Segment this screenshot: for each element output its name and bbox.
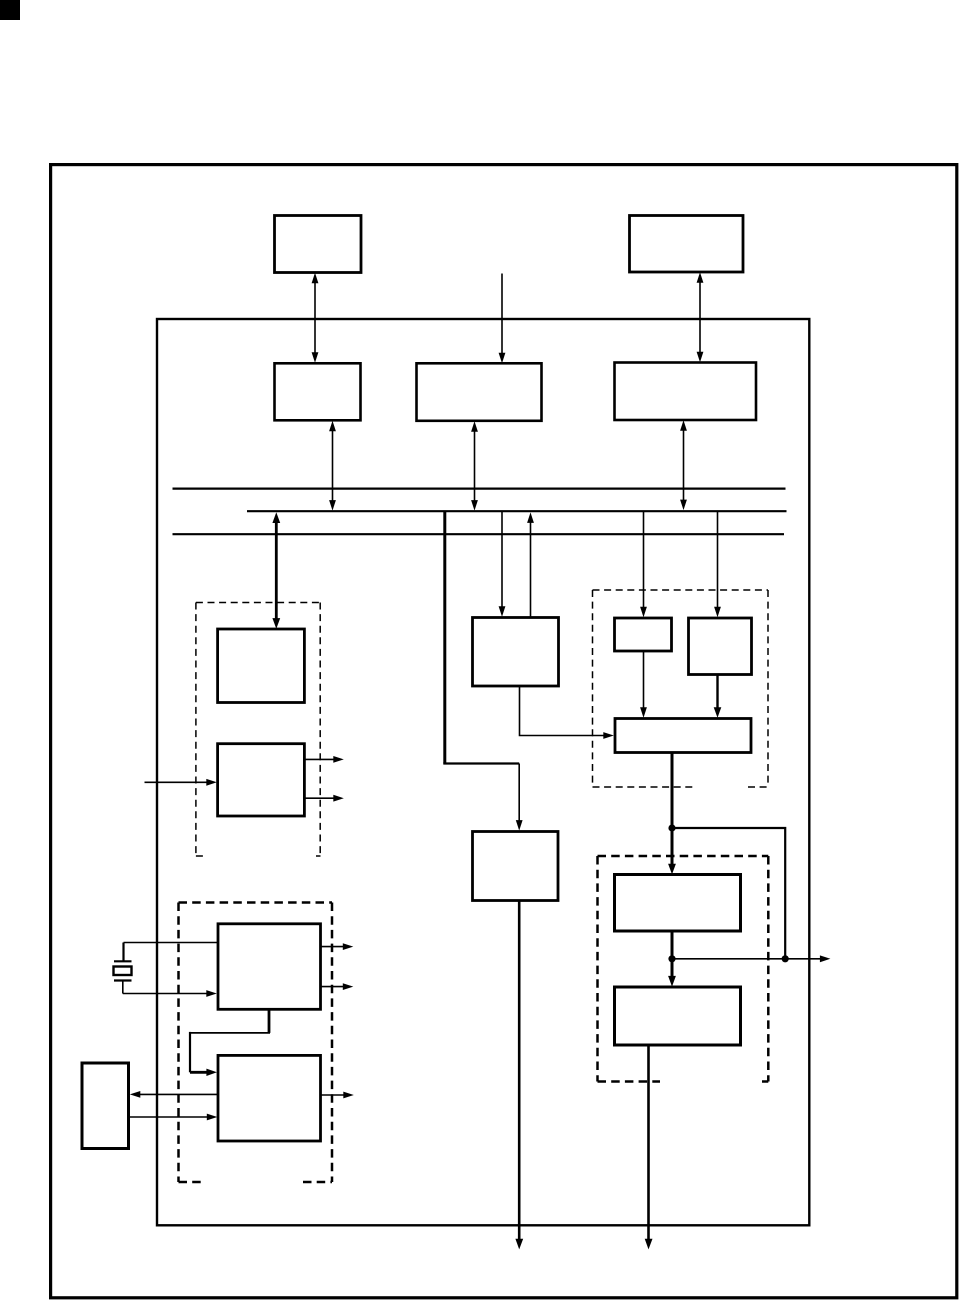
box R1 xyxy=(615,618,672,651)
top box T2 xyxy=(630,216,744,273)
box F xyxy=(218,629,305,703)
wire G output 1 xyxy=(305,756,344,763)
bus line 1 xyxy=(173,488,786,490)
box I xyxy=(218,1055,321,1141)
dashed group S (lower right) xyxy=(598,856,769,1082)
wide box W xyxy=(615,719,751,753)
wire feedback branch right then down xyxy=(672,828,785,959)
wire into box B from above xyxy=(499,274,506,364)
box D xyxy=(615,875,741,932)
wire J to I arrow xyxy=(129,1114,218,1121)
node on output line xyxy=(782,955,789,962)
box E xyxy=(615,987,741,1045)
box G xyxy=(218,744,305,816)
page corner mark xyxy=(0,0,20,20)
crystal X1 top lead xyxy=(122,943,124,962)
inner system box xyxy=(157,319,809,1225)
wire I to J arrow xyxy=(130,1091,218,1098)
dashed group R (upper right) xyxy=(593,590,769,787)
wire I output right xyxy=(321,1092,354,1099)
box J xyxy=(82,1063,129,1149)
bus line 3 xyxy=(173,533,785,535)
wire external input into box G xyxy=(145,779,217,786)
wire A-bus double arrow xyxy=(329,421,336,511)
wire R1 into wide box W xyxy=(640,651,647,718)
wire R2 into wide box W xyxy=(714,675,722,718)
dashed group Q (lower left) xyxy=(179,903,333,1183)
wire B-bus double arrow xyxy=(471,421,478,510)
crystal X1 top plate xyxy=(114,960,132,962)
crystal X1 top wire xyxy=(124,942,219,944)
crystal X1 bottom lead xyxy=(122,981,124,994)
wire bus2 down-left branch to box K xyxy=(443,511,522,830)
dashed group P (upper left) xyxy=(196,603,321,857)
wire C-bus double arrow xyxy=(680,420,687,510)
wire E long output down out of system xyxy=(645,1045,653,1249)
wire crystal into box H xyxy=(123,990,217,997)
wire T1-A double arrow xyxy=(312,273,319,363)
wire T2-C double arrow xyxy=(697,272,704,362)
wire output to the right out of system xyxy=(672,955,830,962)
wire bus2 into R1 xyxy=(640,511,647,617)
middle box M xyxy=(473,618,559,687)
wire bus2 into middle box M xyxy=(499,511,506,617)
row2 box B xyxy=(417,363,542,421)
wire H output 1 xyxy=(321,943,354,950)
crystal X1 body xyxy=(114,967,132,976)
wire G output 2 xyxy=(305,795,344,802)
wire K long output down out of system xyxy=(515,901,523,1250)
row2 box C xyxy=(615,363,757,421)
crystal X1 bottom plate xyxy=(114,979,132,981)
bus line 2 xyxy=(247,510,787,512)
top box T1 xyxy=(275,216,362,273)
box K xyxy=(473,832,559,901)
wire bus-F thick double arrow xyxy=(272,512,280,629)
wire H to I stepped path xyxy=(190,1009,270,1076)
box R2 xyxy=(689,618,752,675)
wire W output down to box D with junction xyxy=(668,753,676,875)
wire D to E with junction xyxy=(668,931,676,987)
wire bus2 into R2 xyxy=(714,511,721,617)
box H xyxy=(218,924,321,1010)
wire M output to wide box W xyxy=(520,686,614,739)
wire middle box M up to bus2 xyxy=(527,512,534,617)
wire H output 2 xyxy=(321,983,354,990)
row2 box A xyxy=(275,363,361,420)
